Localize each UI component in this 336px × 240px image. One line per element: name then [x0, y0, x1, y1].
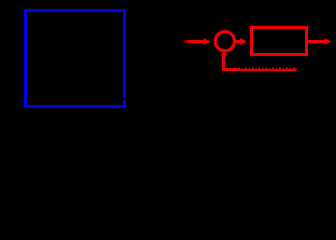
block rectangle: [252, 28, 307, 55]
wire feedback horizontal: [222, 69, 297, 71]
blue square frame: [26, 11, 125, 107]
feedback arrowhead into circle bottom: [220, 51, 227, 56]
summing junction circle: [215, 32, 234, 51]
gap in right edge of square: [122, 98, 126, 100]
arrowhead into block: [240, 38, 247, 45]
wire input line: [184, 40, 204, 43]
tiny text marks above feedback line: [238, 67, 296, 69]
wire feedback vertical: [222, 55, 225, 72]
output arrowhead: [324, 38, 331, 45]
wire output line: [308, 40, 325, 43]
input arrowhead: [204, 38, 211, 45]
wire feedback horizontal thick start: [222, 68, 238, 71]
wire circle to block: [236, 40, 242, 43]
